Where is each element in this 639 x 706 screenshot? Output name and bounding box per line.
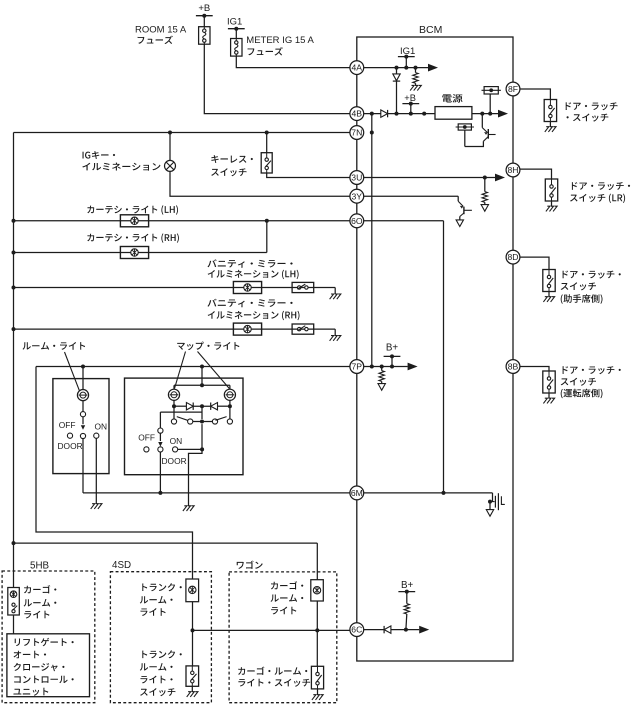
svg-text:7P: 7P xyxy=(352,362,363,372)
svg-text:8D: 8D xyxy=(508,252,519,262)
svg-text:3U: 3U xyxy=(351,173,362,183)
svg-text:IG1: IG1 xyxy=(400,46,415,57)
svg-text:6M: 6M xyxy=(351,488,363,498)
svg-text:B+: B+ xyxy=(386,343,399,354)
svg-text:6C: 6C xyxy=(351,625,362,635)
svg-text:3Y: 3Y xyxy=(352,191,363,201)
svg-text:4SD: 4SD xyxy=(112,560,131,571)
svg-text:BCM: BCM xyxy=(419,24,442,36)
svg-text:B+: B+ xyxy=(401,580,414,591)
svg-text:4B: 4B xyxy=(352,109,363,119)
svg-text:5HB: 5HB xyxy=(30,560,50,571)
svg-text:+B: +B xyxy=(198,3,210,14)
svg-text:METER IG 15 A: METER IG 15 A xyxy=(246,35,314,46)
svg-text:IG1: IG1 xyxy=(227,17,242,28)
svg-text:OFF: OFF xyxy=(59,420,76,430)
svg-text:7N: 7N xyxy=(351,128,362,138)
svg-text:ON: ON xyxy=(95,421,108,431)
svg-text:8B: 8B xyxy=(508,362,519,372)
svg-text:ROOM 15 A: ROOM 15 A xyxy=(135,25,187,36)
svg-text:DOOR: DOOR xyxy=(162,456,187,466)
svg-text:DOOR: DOOR xyxy=(58,441,83,451)
svg-text:8H: 8H xyxy=(508,165,519,175)
svg-text:4A: 4A xyxy=(352,63,363,73)
svg-text:6O: 6O xyxy=(351,216,363,226)
svg-text:8F: 8F xyxy=(508,84,518,94)
svg-text:OFF: OFF xyxy=(138,432,155,442)
svg-text:+B: +B xyxy=(404,93,416,103)
svg-text:ON: ON xyxy=(170,436,183,446)
